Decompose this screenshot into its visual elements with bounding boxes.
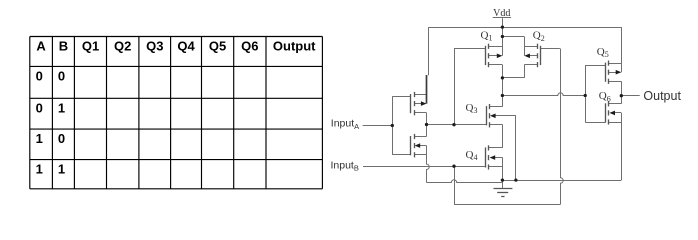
svg-text:A: A xyxy=(36,38,46,53)
svg-text:1: 1 xyxy=(58,162,65,177)
svg-text:Q2: Q2 xyxy=(114,38,131,53)
svg-text:Output: Output xyxy=(273,38,316,53)
svg-text:B: B xyxy=(59,38,68,53)
svg-text:Output: Output xyxy=(643,89,681,103)
svg-text:Vdd: Vdd xyxy=(493,8,510,19)
svg-text:0: 0 xyxy=(58,131,65,146)
svg-text:Q1: Q1 xyxy=(82,38,99,53)
svg-text:1: 1 xyxy=(58,100,65,115)
svg-text:0: 0 xyxy=(36,100,43,115)
svg-text:Q3: Q3 xyxy=(146,38,163,53)
svg-text:1: 1 xyxy=(36,162,43,177)
svg-text:Q6: Q6 xyxy=(241,38,258,53)
svg-text:0: 0 xyxy=(36,68,43,83)
svg-text:0: 0 xyxy=(58,68,65,83)
svg-text:Q5: Q5 xyxy=(209,38,226,53)
svg-text:Q4: Q4 xyxy=(177,38,195,53)
svg-text:1: 1 xyxy=(36,131,43,146)
